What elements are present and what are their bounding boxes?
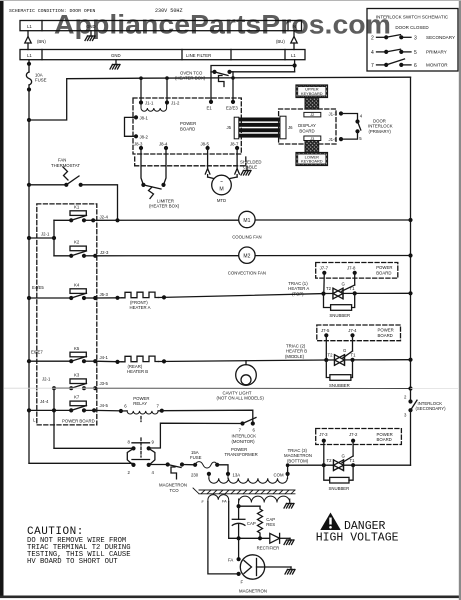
danger warning triangle xyxy=(320,513,340,531)
interlock switch schematic box xyxy=(367,9,458,72)
terminal J5-3 xyxy=(93,292,108,300)
svg-text:TCO: TCO xyxy=(170,488,180,493)
svg-text:MAGNETRON: MAGNETRON xyxy=(239,589,267,594)
motor M2 convection fan xyxy=(228,247,266,275)
relay K7 xyxy=(29,395,94,413)
wire: HV bottom rail xyxy=(229,502,270,541)
svg-text:MTD: MTD xyxy=(217,198,226,203)
magnetron TCO xyxy=(159,462,187,493)
svg-text:RECTIFIER: RECTIFIER xyxy=(257,546,280,551)
page border top xyxy=(0,0,461,1)
triac3 power board dashed box xyxy=(316,429,402,445)
svg-text:T1: T1 xyxy=(351,353,357,358)
svg-text:J5-3: J5-3 xyxy=(100,292,109,297)
ground under TB2 xyxy=(110,60,120,69)
wire: heater B row to triac2 xyxy=(159,359,411,363)
ground at HV winding xyxy=(284,504,294,509)
svg-text:L1: L1 xyxy=(291,53,296,58)
svg-text:(PRIMARY): (PRIMARY) xyxy=(369,129,392,134)
svg-text:13A: 13A xyxy=(233,473,241,478)
scan streak (faint) xyxy=(4,387,95,389)
svg-text:J2: J2 xyxy=(310,112,314,117)
svg-text:BOARD: BOARD xyxy=(378,333,393,338)
svg-text:6: 6 xyxy=(414,63,417,69)
wire: monitor to relay contact 9 xyxy=(150,423,242,448)
wire: J1-5 to door interlock primary xyxy=(341,133,358,139)
svg-text:KEYBOARD: KEYBOARD xyxy=(301,159,323,164)
svg-text:E6/E7: E6/E7 xyxy=(31,350,43,355)
svg-text:J1-3: J1-3 xyxy=(329,112,338,117)
transformer filament winding xyxy=(202,495,229,504)
wire: left bus bottom corner to contact 2 xyxy=(29,463,132,464)
wire: J8-3 to limiter xyxy=(141,148,143,185)
node: TB2 left to fuse xyxy=(27,60,31,72)
wire: triac3 T1 to right bus xyxy=(353,464,410,466)
svg-text:T1: T1 xyxy=(350,286,356,291)
wire+junction: heater A row left xyxy=(95,296,122,300)
header text: schematic condition xyxy=(9,8,95,14)
page border bottom xyxy=(0,596,461,599)
svg-text:J4-5: J4-5 xyxy=(100,403,109,408)
wire: left bus corner to top rail xyxy=(29,78,141,120)
fuse 10A (left supply fuse) xyxy=(26,72,46,85)
svg-text:J1-5: J1-5 xyxy=(329,137,338,142)
svg-text:(HEATER BOX): (HEATER BOX) xyxy=(149,204,180,209)
upper keyboard box xyxy=(296,85,328,98)
dashed heater box enclosure line xyxy=(135,157,246,166)
svg-text:K7: K7 xyxy=(74,395,80,400)
relay K2 xyxy=(54,240,95,258)
svg-text:J2-1: J2-1 xyxy=(42,377,51,382)
svg-text:SNUBBER: SNUBBER xyxy=(329,313,350,318)
power board dashed box (top) xyxy=(133,98,241,154)
caution heading xyxy=(27,526,84,538)
svg-text:HV BOARD TO SHORT OUT: HV BOARD TO SHORT OUT xyxy=(27,558,118,566)
wire: K3/K7 riser xyxy=(53,388,55,448)
svg-text:BOARD: BOARD xyxy=(299,128,314,133)
oven TCO (heater box) thermal cutout xyxy=(175,70,232,87)
svg-text:SECONDARY: SECONDARY xyxy=(426,35,455,40)
svg-text:J7-8: J7-8 xyxy=(347,265,356,270)
svg-text:F: F xyxy=(241,580,244,585)
svg-text:L1: L1 xyxy=(27,53,32,58)
triac U1 (heater A top) xyxy=(288,273,357,299)
interlock secondary switch on right bus xyxy=(404,394,446,417)
svg-text:BOARD: BOARD xyxy=(377,437,392,442)
page border right xyxy=(459,0,461,600)
svg-text:COOLING FAN: COOLING FAN xyxy=(232,234,261,239)
svg-text:J8-1: J8-1 xyxy=(140,116,149,121)
svg-text:J8-4: J8-4 xyxy=(159,142,168,147)
wire: M1 row xyxy=(93,218,410,222)
caution body xyxy=(27,537,131,566)
svg-text:FA: FA xyxy=(222,500,227,504)
terminal J8-4 xyxy=(159,142,168,151)
svg-text:J5: J5 xyxy=(227,125,232,130)
svg-text:J6: J6 xyxy=(288,125,293,130)
svg-text:(MONITOR): (MONITOR) xyxy=(232,439,256,444)
svg-text:J8-7: J8-7 xyxy=(230,142,239,147)
svg-text:POWER: POWER xyxy=(180,121,196,126)
svg-text:(SECONDARY): (SECONDARY) xyxy=(416,406,447,411)
wire: riser to relay contact 8 xyxy=(54,447,132,449)
svg-text:AppliancePartsPros.com: AppliancePartsPros.com xyxy=(54,10,391,40)
triac U3 (magnetron bottom) xyxy=(284,441,355,471)
svg-text:T2: T2 xyxy=(328,353,334,358)
header text: voltage xyxy=(155,8,183,14)
upper keyboard ribbon xyxy=(305,98,319,110)
svg-text:J7-3: J7-3 xyxy=(319,432,328,437)
svg-text:GND: GND xyxy=(111,53,121,58)
svg-text:T1: T1 xyxy=(350,458,356,463)
shielded cable ribbon xyxy=(239,118,280,138)
wire: heater B row left xyxy=(95,360,122,364)
power relay contact set xyxy=(127,438,155,475)
transformer T1 primary winding xyxy=(209,474,288,483)
svg-text:BOARD: BOARD xyxy=(180,127,195,132)
svg-text:SNUBBER: SNUBBER xyxy=(329,383,350,388)
svg-text:K1: K1 xyxy=(74,204,80,209)
ground at magnetron xyxy=(285,567,295,574)
terminal J2-4 xyxy=(91,214,108,222)
svg-text:DOOR CLOSED: DOOR CLOSED xyxy=(395,25,429,30)
snubber1 xyxy=(324,293,355,318)
right bus vertical (top half) xyxy=(408,77,412,401)
wire: K1/K2 riser xyxy=(53,220,55,256)
svg-text:L1: L1 xyxy=(27,24,32,29)
interlock schematic row: monitor, pins 7-6 (open) xyxy=(371,59,448,69)
label LINE FILTER xyxy=(182,50,231,60)
svg-text:LINE FILTER: LINE FILTER xyxy=(186,53,211,58)
svg-text:CONVECTION FAN: CONVECTION FAN xyxy=(228,270,266,275)
svg-text:E1: E1 xyxy=(207,106,213,111)
svg-text:HEATER B: HEATER B xyxy=(127,369,148,374)
terminal J4-1 xyxy=(93,355,108,363)
svg-text:THERMOSTAT: THERMOSTAT xyxy=(51,163,80,168)
svg-text:RELAY: RELAY xyxy=(133,401,147,406)
svg-text:BOARD: BOARD xyxy=(376,270,391,275)
terminal E1 xyxy=(207,100,214,111)
lower keyboard box xyxy=(296,153,328,166)
svg-text:HIGH VOLTAGE: HIGH VOLTAGE xyxy=(316,532,399,545)
svg-text:J8-3: J8-3 xyxy=(134,142,143,147)
svg-text:3: 3 xyxy=(414,35,417,41)
svg-text:~: ~ xyxy=(220,180,223,186)
wire: J1-3 to door interlock primary xyxy=(341,114,358,121)
resistor heater B (rear) xyxy=(122,356,159,374)
wire: J2-1 feed xyxy=(29,232,56,241)
interlock monitor switch xyxy=(232,418,257,444)
relay K5 xyxy=(29,346,95,364)
power relay coil xyxy=(121,396,164,422)
terminal J8-1 with loop xyxy=(134,115,149,120)
wire+plug arrow (BU) right xyxy=(276,31,297,50)
page border left xyxy=(0,0,4,597)
terminal J8-2 with loop xyxy=(134,134,149,139)
svg-text:7: 7 xyxy=(371,63,374,69)
interlock schematic row: secondary, pins 2-3 xyxy=(371,35,455,42)
svg-text:T2: T2 xyxy=(327,458,333,463)
left bus wire (vertical main) xyxy=(27,85,31,463)
connector J3 xyxy=(304,136,321,141)
relay K4 xyxy=(29,282,95,300)
connector J2 xyxy=(304,112,321,117)
terminal bar TB1 (top supply strip) xyxy=(20,21,302,31)
wire: J8-5 to MTD with shield arrow xyxy=(205,148,213,179)
svg-text:J4-1: J4-1 xyxy=(100,355,109,360)
fuse 15A (HV fuse) xyxy=(182,450,219,468)
snubber2 xyxy=(326,360,352,388)
display board dashed box xyxy=(279,109,336,144)
wire: J4-5 to power relay coil xyxy=(94,409,123,413)
wire: heater A row to triac1 xyxy=(159,293,411,299)
choke coil L1 between J1-1 and J1-2 xyxy=(141,105,167,112)
svg-text:E2/E3: E2/E3 xyxy=(226,106,238,111)
svg-text:FUSE: FUSE xyxy=(35,78,47,83)
triac2 power board dashed box xyxy=(317,325,401,341)
svg-text:FAN: FAN xyxy=(58,158,66,163)
svg-text:K5: K5 xyxy=(74,346,80,351)
fan thermostat xyxy=(29,158,83,187)
svg-text:K3: K3 xyxy=(74,372,80,377)
svg-text:K2: K2 xyxy=(74,240,80,245)
triac1 power board dashed box xyxy=(316,263,398,279)
node: HV to cap junction xyxy=(237,504,261,508)
wire: J8-1/J8-2 bracket xyxy=(125,117,137,136)
terminal E2/E3 xyxy=(226,100,238,111)
wire: thermostat to M1 row xyxy=(81,185,118,221)
svg-text:230: 230 xyxy=(191,473,199,478)
motor M1 cooling fan xyxy=(232,211,261,239)
svg-text:K4: K4 xyxy=(74,282,80,287)
svg-text:J8-5: J8-5 xyxy=(201,142,210,147)
svg-text:POWER BOARD: POWER BOARD xyxy=(62,419,95,424)
transformer HV winding xyxy=(239,496,290,506)
relay K3 xyxy=(42,372,95,390)
wire: fuse to 13A tap xyxy=(217,465,228,474)
svg-text:COM: COM xyxy=(274,473,284,478)
wire: J3-5 row to right bus xyxy=(95,386,412,390)
svg-text:(BU): (BU) xyxy=(276,39,285,44)
wire: COM riser xyxy=(286,463,324,473)
wire: F long path to magnetron xyxy=(208,502,244,585)
right bus vertical (bottom part) xyxy=(410,410,412,465)
svg-text:(TOP): (TOP) xyxy=(292,291,304,296)
svg-text:T2: T2 xyxy=(326,286,332,291)
wire: TB2 right drop xyxy=(293,60,297,72)
terminal J1-3 xyxy=(329,111,344,116)
svg-text:J1-1: J1-1 xyxy=(145,101,154,106)
svg-text:J2-3: J2-3 xyxy=(100,250,109,255)
terminal J4-5 xyxy=(92,403,108,413)
transformer T1 primary taps xyxy=(191,472,290,478)
svg-text:J7-2: J7-2 xyxy=(349,432,358,437)
svg-text:(BOTTOM): (BOTTOM) xyxy=(287,458,309,463)
wire: J1-1 drop xyxy=(140,78,142,102)
snubber3 xyxy=(324,465,353,491)
danger text xyxy=(316,520,399,545)
svg-text:J7-4: J7-4 xyxy=(348,328,357,333)
interlock schematic row: primary, pins 4-5 xyxy=(371,49,447,56)
terminal J2-3 xyxy=(93,250,109,258)
svg-text:PRIMARY: PRIMARY xyxy=(426,50,447,55)
svg-text:J8-2: J8-2 xyxy=(140,134,149,139)
wire: J1-2 drop xyxy=(166,78,168,102)
label L at box exit xyxy=(33,418,36,423)
terminal J8-5 xyxy=(201,142,210,151)
terminal J8-3 xyxy=(134,142,143,151)
svg-text:CABLE: CABLE xyxy=(243,165,257,170)
svg-text:E4/E5: E4/E5 xyxy=(32,285,44,290)
wire: TCO right to E2/E3 drop xyxy=(230,72,234,100)
wire: J8-4 to limiter xyxy=(164,148,167,185)
label shielded cable xyxy=(240,160,262,170)
svg-text:M2: M2 xyxy=(243,254,250,260)
limiter (heater box) xyxy=(141,183,180,209)
svg-text:FUSE: FUSE xyxy=(190,455,202,460)
svg-text:(HEATER BOX): (HEATER BOX) xyxy=(175,76,206,81)
svg-text:(MIDDLE): (MIDDLE) xyxy=(285,354,305,359)
transformer core xyxy=(193,488,295,494)
motor MTD (turntable) xyxy=(212,175,232,203)
wire: magnetron anode to ground xyxy=(265,566,291,568)
svg-text:KEYBOARD: KEYBOARD xyxy=(301,91,323,96)
wire: coil pin7 to monitor interlock xyxy=(162,410,253,422)
wire+plug arrow (BN) left xyxy=(25,31,47,50)
shielded cable end cap xyxy=(280,116,293,139)
svg-text:J3-5: J3-5 xyxy=(100,381,109,386)
svg-text:TRANSFORMER: TRANSFORMER xyxy=(225,452,258,457)
wire: top rail to right bus xyxy=(139,76,410,80)
capacitor CAP xyxy=(232,506,256,538)
rectifier diode xyxy=(257,533,290,550)
svg-text:J7-7: J7-7 xyxy=(320,265,329,270)
wire: FA drop to magnetron xyxy=(228,538,241,562)
svg-text:CAP: CAP xyxy=(247,521,256,526)
svg-text:J4-4: J4-4 xyxy=(40,399,49,404)
lower keyboard ribbon xyxy=(305,141,319,153)
terminal J3-5 xyxy=(93,381,108,390)
svg-text:FA: FA xyxy=(228,558,233,563)
ground near shielded cable xyxy=(241,167,251,176)
wire: M2 row xyxy=(95,255,410,257)
svg-text:J2-1: J2-1 xyxy=(41,232,50,237)
terminal bar TB2 (line filter strip) xyxy=(20,50,305,60)
svg-text:J7-5: J7-5 xyxy=(321,328,330,333)
wire: upper branch to oven TCO xyxy=(211,66,295,100)
cavity light lamp xyxy=(217,361,265,401)
label power transformer xyxy=(225,447,258,457)
svg-text:M1: M1 xyxy=(243,218,250,224)
terminal J8-7 xyxy=(230,142,239,151)
svg-text:4: 4 xyxy=(371,50,374,56)
triac U2 (heater B middle) xyxy=(285,335,356,365)
terminal J1-2 xyxy=(165,100,180,105)
svg-text:J1-2: J1-2 xyxy=(171,101,180,106)
svg-text:HEATER A: HEATER A xyxy=(130,305,151,310)
ground after rectifier xyxy=(284,538,294,544)
wire: lower branch TB2 to TCO right xyxy=(230,71,295,73)
relay K1 xyxy=(54,204,93,222)
svg-text:RES: RES xyxy=(266,522,275,527)
svg-text:M: M xyxy=(219,187,223,193)
terminal J1-1 xyxy=(139,100,154,105)
bleed resistor CAP RES xyxy=(258,506,276,538)
svg-text:J2-4: J2-4 xyxy=(100,214,109,219)
wire: contact 4 to magnetron TCO xyxy=(149,464,168,466)
ground under TB1 xyxy=(85,31,95,41)
svg-text:SNUBBER: SNUBBER xyxy=(329,486,350,491)
door interlock primary switch xyxy=(355,113,392,141)
magnetron V1 xyxy=(239,555,267,594)
svg-text:(BN): (BN) xyxy=(37,39,46,44)
relay board dashed box xyxy=(37,204,97,425)
svg-text:(NOT ON ALL MODELS): (NOT ON ALL MODELS) xyxy=(217,396,265,401)
resistor heater A (front) xyxy=(122,292,159,310)
svg-text:MONITOR: MONITOR xyxy=(426,63,448,68)
terminal J1-5 xyxy=(329,137,344,142)
wire: J8-7 to MTD with shield arrow xyxy=(230,148,239,179)
connector J5 xyxy=(227,117,239,139)
svg-text:5: 5 xyxy=(414,50,417,56)
